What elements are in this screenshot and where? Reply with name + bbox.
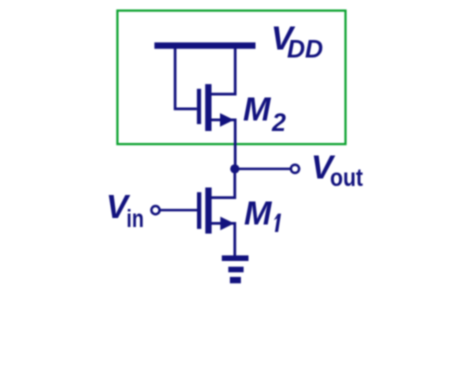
- transistor M2 channel bar: [205, 84, 211, 131]
- label Vin: [106, 188, 144, 233]
- ground symbol: [222, 255, 249, 283]
- wire Vin to M1 gate: [160, 209, 197, 212]
- wire M2 source to node: [211, 120, 235, 169]
- transistor M2 gate bar: [197, 89, 201, 124]
- svg-text:M: M: [243, 91, 272, 128]
- wire VDD to M2 gate (left drop): [175, 46, 197, 109]
- transistor M1 gate bar: [197, 192, 201, 229]
- wire node to Vout terminal: [235, 168, 291, 171]
- transistor M1 channel bar: [205, 188, 211, 234]
- label M1: [244, 194, 281, 232]
- Vin terminal (open circle): [151, 206, 159, 214]
- VDD supply rail: [154, 42, 255, 48]
- label M2: [243, 91, 286, 137]
- svg-text:DD: DD: [287, 36, 323, 64]
- svg-text:out: out: [330, 164, 364, 192]
- M1 source arrow: [220, 217, 234, 231]
- wire M1 source to ground: [211, 223, 235, 256]
- M2 source arrow: [220, 113, 234, 127]
- label VDD: [271, 20, 323, 64]
- wire VDD to M2 drain (right drop): [211, 46, 235, 94]
- svg-text:M: M: [244, 194, 273, 231]
- svg-text:2: 2: [271, 109, 286, 137]
- label Vout: [311, 149, 364, 193]
- highlight box (green): [117, 11, 345, 145]
- node (drain junction dot): [230, 164, 239, 173]
- svg-text:in: in: [126, 205, 143, 233]
- wire node to M1 drain: [211, 169, 235, 198]
- Vout terminal (open circle): [291, 165, 299, 173]
